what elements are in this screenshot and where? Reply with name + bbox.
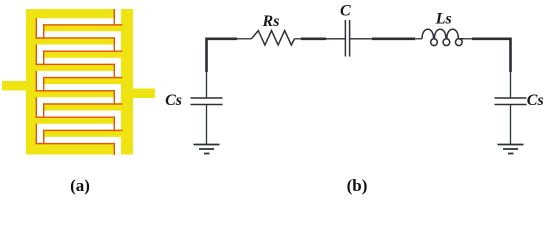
wire: top-right thick corner (472, 39, 511, 72)
wire: inductor left lead (414, 38, 422, 40)
wire: inductor right lead (460, 38, 473, 40)
ground left (194, 145, 220, 154)
wire: resistor right lead (295, 38, 302, 40)
IDC body (yellow block) (26, 9, 133, 155)
svg-text:Rs: Rs (262, 13, 280, 30)
wire: thick between Rs and C (301, 37, 326, 40)
wire: resistor left lead (236, 38, 252, 40)
svg-text:Cs: Cs (165, 92, 182, 109)
wire: left shunt branch upper (206, 71, 208, 98)
svg-text:C: C (340, 3, 351, 20)
svg-text:(b): (b) (347, 176, 368, 195)
svg-text:(a): (a) (70, 176, 90, 195)
wire: capacitor C left lead (325, 38, 345, 40)
capacitor Cs left plates (191, 98, 223, 105)
wire: top-left thick corner (207, 39, 238, 72)
wire: right shunt branch lower (510, 105, 512, 145)
inductor Ls (422, 29, 464, 45)
resistor Rs (252, 31, 295, 45)
capacitor C plates (345, 20, 349, 57)
wire: thick between C and Ls (372, 37, 415, 40)
right port stub (133, 89, 155, 99)
wire: left shunt branch lower (206, 105, 208, 145)
capacitor Cs right plates (495, 98, 527, 105)
ground right (498, 145, 524, 154)
svg-text:Cs: Cs (527, 92, 544, 109)
svg-text:Ls: Ls (435, 11, 452, 28)
wire: capacitor C right lead (350, 38, 373, 40)
serpentine gap: white channel (40, 9, 118, 155)
wire: right shunt branch upper (510, 71, 512, 98)
left port stub (2, 81, 26, 91)
gap outline pinstripes (orange) (36, 9, 123, 155)
